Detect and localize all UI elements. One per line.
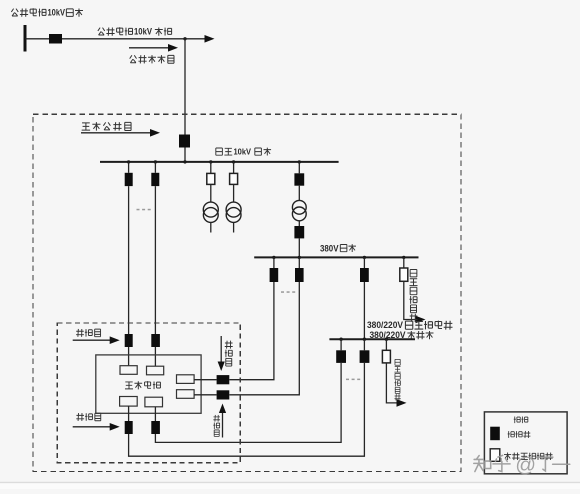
wire: T1 stub [210, 222, 212, 232]
label: 380/220V user distribution box [367, 320, 453, 330]
inverter box4 (bottom) [145, 397, 163, 407]
box: PV station [96, 355, 201, 413]
wire: QF4 to transformer T3 [298, 186, 300, 201]
wire: QF10 to PV bottom (down+left+up) [129, 363, 365, 456]
inverter box1 [120, 366, 137, 375]
svg-text:10kV: 10kV [134, 27, 152, 37]
wire: QF5 to 380V busbar [298, 238, 300, 257]
transformer T3 [292, 200, 306, 220]
wire: busbar to QF10 [363, 339, 365, 350]
wire: QF1 to user busbar [184, 148, 186, 163]
watermark: Zhihu @ [474, 454, 570, 477]
fuse FU1 [207, 173, 215, 184]
wire: box6 to QF14 [194, 394, 217, 396]
inverter box2 [147, 366, 164, 375]
wire: QF12 to inverter box2 [154, 347, 156, 366]
legend breaker symbol [490, 427, 500, 441]
breaker QF3 [151, 173, 159, 186]
fuse FU2 [230, 173, 238, 184]
wire: busbar to QF9 [340, 339, 342, 350]
label: public connection point [130, 55, 174, 63]
node taps on user busbar [127, 160, 301, 163]
wire: busbar to breaker QF4 [298, 162, 300, 173]
label: property demarcation point [82, 122, 131, 130]
wire: 380V busbar to QF7 [298, 257, 300, 268]
svg-text:10kV: 10kV [234, 147, 252, 157]
boundary: PV plant dashed box [57, 323, 240, 463]
wire: FU2 to transformer T2 [233, 184, 235, 202]
label: grid connection point (bottom-left) [76, 413, 100, 421]
label: grid connection point (vertical, lower right) [213, 415, 220, 436]
wire: T3 to breaker QF5 [298, 221, 300, 226]
inverter box3 (bottom) [120, 397, 138, 407]
wire: 380V busbar to QF8 [363, 257, 365, 268]
breaker QF4 [294, 173, 304, 185]
breaker QF11 (PV top-left) [125, 334, 133, 347]
fuse FU3 [400, 268, 408, 281]
wire: T2 stub [233, 222, 235, 232]
arrow: grid connection point top-left [73, 336, 120, 344]
wire: FU4 load feeder with arrow [386, 363, 406, 407]
wire: busbar to breaker QF3 [154, 162, 156, 173]
arrow: public connection point [129, 44, 178, 52]
transformer T2 [226, 202, 241, 222]
wire: busbar to fuse FU4 [385, 339, 387, 350]
label: user internal load (vertical, mid) [394, 359, 400, 400]
ellipsis between 380V feeders [281, 291, 295, 293]
arrow: up from grid connection (right) [219, 404, 226, 438]
wire: drop from 10kV line to user breaker [184, 39, 186, 135]
transformer T1 [203, 202, 218, 222]
arrow: down to grid connection (right) [218, 336, 225, 371]
breaker QF9 [336, 350, 346, 363]
legend fuse symbol [490, 449, 500, 462]
busbar: public grid 10kV (vertical bar) [24, 25, 27, 52]
breaker QF13 (PV right upper) [217, 375, 230, 384]
wire: FU3 load feeder with arrow [404, 281, 426, 323]
wire: box5 to QF13 [194, 379, 217, 381]
boundary: user premises dashed box [33, 114, 461, 471]
svg-text:380/220V: 380/220V [367, 320, 403, 330]
node taps on 380V busbar [272, 256, 405, 259]
busbar: user 10kV [100, 161, 339, 163]
breaker QF10 [360, 350, 370, 363]
label: public grid 10kV busbar [11, 8, 83, 18]
bottom separator line [0, 483, 580, 490]
wire: 10kV line with arrow [26, 35, 215, 43]
label: public grid 10kV line [98, 27, 172, 37]
wire: box3 to QF15 [128, 406, 130, 421]
svg-text:380V: 380V [320, 243, 339, 253]
breaker QF8 [360, 268, 369, 282]
breaker QF0 on 10kV line [49, 34, 62, 44]
wire: FU1 to transformer T1 [210, 184, 212, 202]
arrow: property demarcation [81, 129, 160, 137]
wire: busbar to fuse FU2 [233, 162, 235, 174]
label: user internal load (vertical, right) [409, 270, 417, 322]
legend title [514, 416, 528, 423]
ellipsis between feeders [137, 209, 151, 211]
wire: 380V busbar to QF6 [273, 257, 275, 268]
wire: QF3 down to PV grid-connect breaker [154, 186, 156, 334]
wire: QF9 to PV bottom (down+left+up) [155, 363, 341, 443]
busbar: 380V [254, 256, 418, 258]
breaker QF2 [125, 173, 133, 186]
wire: busbar to breaker QF2 [128, 162, 130, 173]
wire: QF11 to inverter box1 [128, 347, 130, 366]
breaker QF7 [295, 268, 304, 282]
breaker QF6 [270, 268, 279, 282]
legend box [484, 412, 567, 474]
wire: 380V busbar to fuse FU3 [403, 257, 405, 268]
ellipsis between 220V feeders [346, 379, 360, 381]
legend label: drop-out fuse [504, 453, 553, 460]
node taps on 380/220V busbar [339, 338, 388, 341]
inverter box6 (right) [177, 390, 195, 399]
breaker QF5 [294, 226, 304, 238]
node: junction of line and drop wire [183, 37, 186, 40]
wire: busbar to fuse FU1 [210, 162, 212, 174]
wire: QF7 to PV right breaker (down+left) [229, 282, 299, 395]
wire: QF2 down to PV grid-connect breaker [128, 186, 130, 334]
breaker QF12 (PV top-right) [151, 334, 160, 347]
label: grid connection point (top-left) [76, 329, 100, 337]
wire: QF6 to PV right breaker (down+left) [229, 282, 274, 380]
fuse FU4 [382, 350, 390, 363]
label: 380V busbar [320, 243, 356, 253]
label: user 10kV busbar [216, 147, 271, 157]
breaker QF15 (PV bottom-left) [125, 421, 133, 434]
svg-text:10kV: 10kV [48, 8, 66, 18]
wire: QF8 to 380/220V busbar [363, 282, 365, 339]
label: PV station [125, 381, 160, 389]
svg-text:@: @ [515, 454, 536, 477]
busbar: 380/220V [329, 338, 415, 340]
breaker QF16 (PV bottom-right) [151, 421, 160, 434]
label: 380/220V overhead line [370, 330, 434, 340]
breaker QF14 (PV right lower) [217, 390, 230, 399]
inverter box5 (right) [177, 375, 195, 384]
arrow: grid connection point bottom-left [73, 423, 120, 431]
label: grid connection point (vertical, upper right) [225, 341, 233, 366]
legend label: breaker [508, 431, 531, 438]
wire: box4 to QF16 [154, 407, 156, 421]
breaker QF1 at user entry [179, 135, 190, 148]
